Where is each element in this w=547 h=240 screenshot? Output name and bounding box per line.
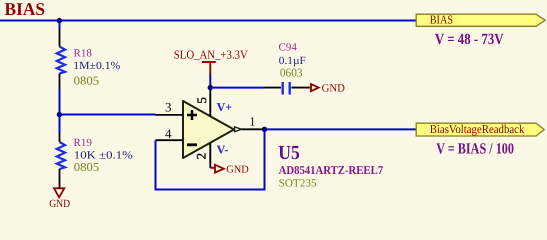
svg-text:GND: GND — [226, 164, 249, 175]
svg-text:BiasVoltageReadback: BiasVoltageReadback — [430, 122, 525, 136]
svg-text:4: 4 — [165, 126, 172, 141]
resistor R19 — [57, 133, 65, 188]
svg-text:0603: 0603 — [280, 66, 303, 80]
svg-text:R18: R18 — [74, 48, 93, 60]
wire — [209, 75, 211, 88]
svg-text:1: 1 — [249, 115, 255, 129]
svg-text:V+: V+ — [217, 100, 233, 114]
capacitor C94 — [265, 82, 310, 95]
wire — [265, 128, 417, 130]
junction — [57, 112, 62, 117]
wire feedback — [156, 129, 265, 189]
resistor R18 — [57, 29, 65, 89]
svg-text:SLO_AN_+3.3V: SLO_AN_+3.3V — [174, 47, 248, 61]
svg-text:GND: GND — [322, 83, 345, 95]
svg-text:V = BIAS / 100: V = BIAS / 100 — [436, 141, 514, 158]
port BIAS — [416, 13, 545, 27]
svg-text:AD8541ARTZ-REEL7: AD8541ARTZ-REEL7 — [279, 163, 384, 177]
svg-text:1M±0.1%: 1M±0.1% — [73, 60, 120, 72]
svg-text:SOT235: SOT235 — [279, 177, 318, 189]
wire — [210, 87, 264, 89]
svg-text:BIAS: BIAS — [430, 13, 453, 27]
svg-text:C94: C94 — [279, 42, 298, 54]
ground — [210, 164, 249, 175]
power port SLO_AN_+3.3V — [174, 47, 248, 74]
svg-text:V = 48 - 73V: V = 48 - 73V — [435, 31, 504, 48]
svg-text:0805: 0805 — [74, 160, 100, 174]
pin 5 — [194, 88, 211, 117]
pin 4 — [156, 126, 184, 141]
svg-text:0805: 0805 — [74, 74, 100, 88]
svg-text:U5: U5 — [278, 142, 300, 164]
junction — [208, 85, 213, 90]
ground — [309, 83, 345, 95]
port BiasVoltageReadback — [416, 122, 544, 136]
wire — [60, 114, 156, 116]
svg-text:3: 3 — [165, 99, 172, 114]
wire — [59, 89, 61, 115]
svg-text:V-: V- — [217, 143, 229, 157]
svg-text:GND: GND — [49, 198, 70, 210]
wire — [59, 115, 61, 134]
pin 3 — [156, 99, 184, 115]
svg-text:BIAS: BIAS — [5, 0, 46, 19]
pin 2 — [194, 143, 211, 168]
svg-text:2: 2 — [194, 153, 209, 160]
wire — [0, 20, 417, 22]
junction — [262, 127, 267, 132]
svg-text:R19: R19 — [74, 137, 93, 149]
pin 1 output — [235, 115, 265, 132]
junction — [57, 18, 62, 23]
wire — [59, 21, 61, 30]
ground — [49, 188, 70, 210]
svg-text:5: 5 — [194, 97, 209, 104]
op-amp U5 — [183, 101, 234, 158]
